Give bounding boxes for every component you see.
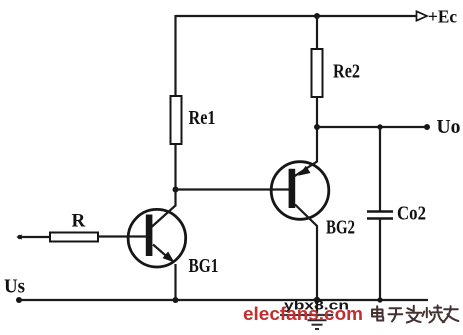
label +Ec <box>428 7 457 27</box>
label Co2 <box>397 203 426 225</box>
label Re1 <box>189 107 216 129</box>
label BG2 <box>326 217 355 239</box>
watermark text ybx8.cn <box>284 298 349 313</box>
resistor R <box>50 233 98 242</box>
wire bottom rail (ground bus) <box>19 299 428 301</box>
node junction BG1 emitter at rail <box>173 297 179 303</box>
label Uo <box>437 116 461 138</box>
wire coupling BG1 collector to BG2 base <box>176 188 290 190</box>
terminal Uo <box>424 124 430 130</box>
watermark chinese 电子发烧友 <box>372 305 458 322</box>
svg-text:Re1: Re1 <box>189 107 216 129</box>
wire output node down to Co2 <box>379 127 381 211</box>
watermark strikethrough line <box>280 314 333 316</box>
resistor Re2 <box>312 49 323 97</box>
svg-text:Re2: Re2 <box>333 61 360 83</box>
resistor Re1 <box>171 96 182 144</box>
capacitor Co2 <box>367 212 393 219</box>
ground <box>303 300 331 329</box>
svg-text:Co2: Co2 <box>397 203 426 225</box>
node junction Co2 tap <box>377 124 382 129</box>
node junction output <box>314 124 320 130</box>
wire R to BG1 base <box>98 235 146 237</box>
svg-text:R: R <box>72 211 86 232</box>
terminal input arrow <box>16 234 22 239</box>
wire left branch from top rail to Re1 <box>174 15 176 96</box>
node junction BG1 collector <box>173 187 179 193</box>
terminal input bottom <box>16 297 22 303</box>
wire top rail (+Ec bus) <box>176 15 418 17</box>
label R <box>72 211 86 232</box>
watermark text elecfans.com <box>243 304 363 324</box>
svg-text:Uo: Uo <box>437 116 461 138</box>
node junction BG2 collector at rail <box>314 297 320 303</box>
wire input to R <box>19 236 50 238</box>
power terminal arrow +Ec <box>417 11 428 20</box>
svg-text:BG2: BG2 <box>326 217 355 239</box>
svg-text:BG1: BG1 <box>189 255 219 277</box>
transistor BG2 <box>271 127 329 300</box>
wire top rail to Re2 <box>316 16 318 49</box>
wire Co2 to bottom rail <box>379 219 381 301</box>
label Re2 <box>333 61 360 83</box>
transistor BG1 <box>128 190 186 301</box>
node junction Co2 at rail <box>377 297 382 302</box>
svg-text:+Ec: +Ec <box>428 7 457 27</box>
node junction at top rail and Re2 <box>314 13 320 19</box>
wire output line to Uo <box>317 126 427 128</box>
label BG1 <box>189 255 219 277</box>
svg-text:Us: Us <box>4 276 25 298</box>
wire Re2 to output node <box>316 97 318 127</box>
label Us <box>4 276 25 298</box>
wire Re1 to collector node <box>174 144 176 190</box>
svg-text:elecfans.com: elecfans.com <box>243 304 363 324</box>
